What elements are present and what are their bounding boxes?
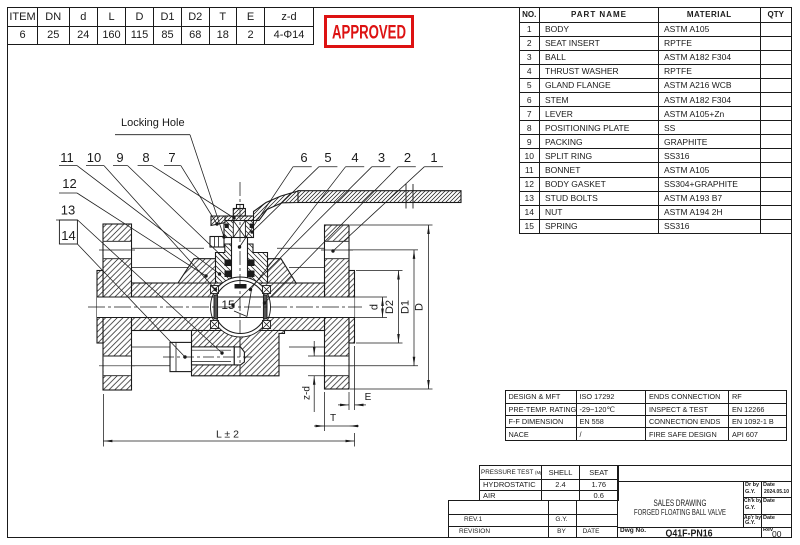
- stem cap: [237, 205, 244, 209]
- dimension L: [102, 394, 104, 447]
- specification table: [505, 390, 788, 440]
- svg-text:10: 10: [87, 150, 101, 165]
- right flange raised face: [349, 271, 355, 344]
- body hub visible edges right: [277, 247, 325, 249]
- sheet border frame: [7, 7, 792, 8]
- flange bolt slots left: [104, 241, 131, 258]
- right flange: [325, 225, 350, 389]
- dimension z-d: [308, 355, 325, 357]
- svg-text:11: 11: [60, 150, 74, 165]
- seat insert left: [214, 295, 218, 319]
- stud bolt: [170, 342, 192, 371]
- svg-text:E: E: [365, 392, 372, 403]
- bonnet: [216, 244, 268, 283]
- svg-text:T: T: [330, 413, 336, 424]
- body joint line: [239, 331, 241, 376]
- stem nut: [233, 209, 245, 217]
- svg-text:9: 9: [116, 150, 123, 165]
- svg-text:D2: D2: [384, 300, 396, 314]
- svg-text:13: 13: [61, 203, 75, 218]
- svg-text:z-d: z-d: [302, 386, 313, 400]
- gland bearing box: [233, 221, 245, 238]
- svg-text:3: 3: [378, 150, 385, 165]
- revision block: [448, 500, 618, 501]
- lever ramp: [254, 191, 300, 221]
- svg-text:2: 2: [404, 150, 411, 165]
- svg-text:D1: D1: [400, 300, 412, 314]
- svg-text:1: 1: [430, 150, 437, 165]
- parts list table: [519, 7, 793, 234]
- svg-text:15: 15: [221, 298, 235, 312]
- left flange raised face: [97, 271, 103, 344]
- packing rings: [225, 260, 232, 267]
- ball cavity: [211, 277, 271, 337]
- lever left tail: [211, 216, 225, 226]
- svg-text:6: 6: [300, 150, 307, 165]
- ball bore: [214, 298, 267, 317]
- dimension T: [324, 392, 326, 431]
- dimension d: [355, 296, 388, 298]
- svg-text:Locking Hole: Locking Hole: [121, 117, 185, 129]
- svg-text:4: 4: [351, 150, 358, 165]
- body upper shoulders: [178, 259, 296, 283]
- positioning plate: [225, 216, 256, 221]
- bore strip: [97, 297, 355, 318]
- stem shaft: [232, 238, 248, 298]
- dimension D2: [356, 270, 403, 272]
- seat insert right: [263, 295, 267, 319]
- drawing number: [620, 528, 646, 535]
- title text: [617, 480, 792, 538]
- stem centreline: [239, 182, 241, 368]
- svg-text:d: d: [369, 304, 381, 310]
- svg-text:7: 7: [168, 150, 175, 165]
- main centreline: [88, 306, 362, 308]
- flange bolt slots right: [325, 241, 348, 258]
- svg-text:8: 8: [142, 150, 149, 165]
- svg-text:D: D: [414, 303, 426, 311]
- bolt centreline: [163, 356, 252, 358]
- body neck bottom wall: [132, 318, 325, 331]
- svg-text:5: 5: [324, 150, 331, 165]
- dimension D1: [350, 249, 418, 251]
- stem key: [235, 284, 247, 289]
- svg-text:12: 12: [62, 176, 76, 191]
- svg-text:L ± 2: L ± 2: [216, 429, 239, 441]
- title block: [617, 465, 618, 538]
- split ring boxes: [211, 286, 219, 294]
- APPROVED stamp: [324, 15, 414, 48]
- lever bar: [298, 191, 461, 203]
- pressure test table: [479, 465, 619, 501]
- dimension data table: [7, 7, 314, 45]
- dimension E: [354, 346, 356, 410]
- locking plate tab: [210, 237, 224, 248]
- body hub visible edges left: [132, 247, 205, 249]
- svg-text:14: 14: [61, 228, 75, 243]
- ball: [214, 281, 267, 334]
- body neck top wall: [132, 283, 325, 297]
- lever break marks: [405, 184, 407, 209]
- body lower lobe: [192, 331, 285, 376]
- left flange: [103, 224, 132, 390]
- thrust washer: [230, 278, 251, 284]
- gland seal dots: [225, 224, 229, 229]
- dimension D: [350, 224, 433, 226]
- gland flange: [224, 221, 254, 238]
